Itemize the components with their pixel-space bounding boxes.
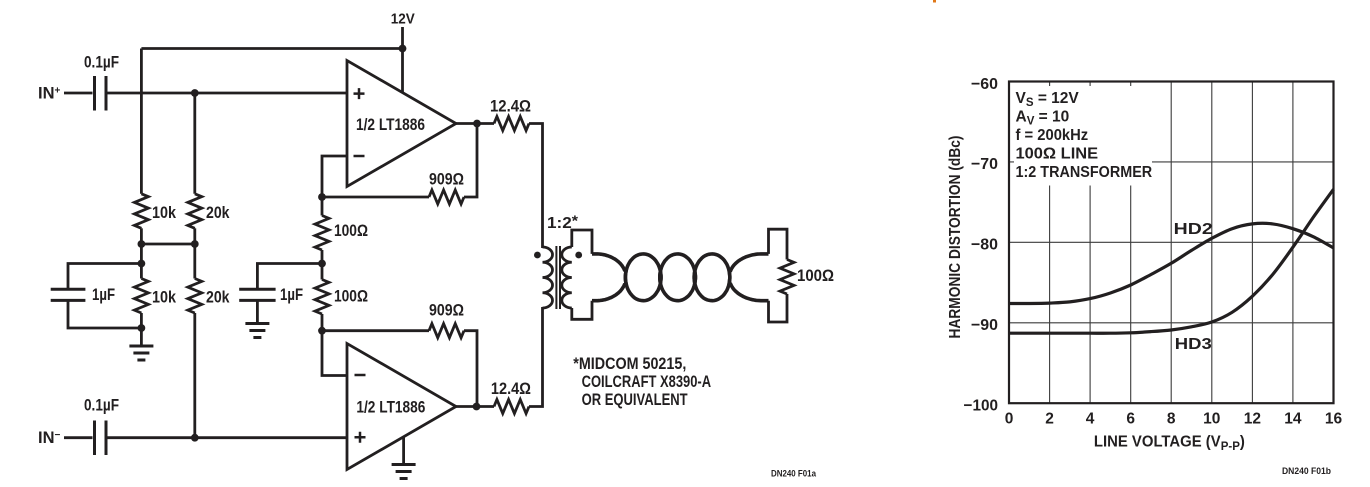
ground C4 (245, 324, 269, 338)
svg-text:12.4Ω: 12.4Ω (490, 98, 531, 116)
junction mid node at 20k column (191, 240, 199, 248)
transformer T1 primary winding (543, 247, 553, 308)
wire node A to R7 (321, 197, 324, 216)
wire R5 to U1a output (464, 124, 477, 198)
op-amp U1b minus input symbol (355, 374, 366, 377)
junction mid node at 10k column (138, 240, 146, 248)
wire R7 bottom to node B (321, 250, 324, 280)
svg-text:1µF: 1µF (92, 286, 115, 304)
svg-text:14: 14 (1284, 411, 1302, 428)
svg-text:OR EQUIVALENT: OR EQUIVALENT (582, 391, 688, 409)
wire mid-node row connecting 10k and 20k columns (141, 243, 194, 246)
svg-text:100Ω: 100Ω (797, 267, 834, 285)
svg-text:VS = 12V: VS = 12V (1016, 90, 1080, 109)
resistor R6 12.4 ohm (upper series) (494, 117, 529, 131)
artifact orange mark (933, 0, 936, 3)
svg-text:0: 0 (1005, 411, 1014, 428)
svg-text:12.4Ω: 12.4Ω (491, 380, 531, 398)
wire bypass cap tap (68, 264, 141, 289)
wire U1b power pin to ground (402, 438, 405, 465)
transformer T1 secondary phase dot (575, 252, 582, 259)
svg-text:−60: −60 (971, 76, 998, 93)
junction 12V rail (399, 45, 407, 53)
transformer T1 core (556, 246, 560, 309)
svg-text:*MIDCOM 50215,: *MIDCOM 50215, (573, 355, 686, 373)
wire R4 bottom down to IN- line (193, 313, 196, 438)
svg-text:f = 200kHz: f = 200kHz (1016, 127, 1089, 144)
op-amp U1a triangle 1/2 LT1886 (347, 61, 456, 187)
wire C1 to op-amp U1a noninverting input (108, 92, 348, 95)
svg-text:100Ω: 100Ω (334, 288, 368, 306)
svg-text:12: 12 (1244, 411, 1261, 428)
svg-text:−80: −80 (971, 237, 998, 254)
svg-text:1/2 LT1886: 1/2 LT1886 (356, 116, 425, 134)
svg-text:−70: −70 (971, 156, 998, 173)
chart grid vertical lines (1050, 82, 1293, 404)
svg-text:10k: 10k (152, 204, 177, 222)
svg-text:12V: 12V (391, 11, 415, 28)
resistor R3 10k (lower bias) (134, 279, 148, 314)
resistor R9 909 ohm feedback (lower) (429, 324, 464, 338)
wire node C to U1b inverting input (322, 331, 347, 376)
svg-text:0.1µF: 0.1µF (84, 397, 119, 415)
svg-text:10k: 10k (152, 289, 177, 307)
op-amp U1a minus input symbol (354, 155, 365, 158)
svg-text:4: 4 (1086, 411, 1095, 428)
wire R1 bottom to mid node (140, 228, 143, 278)
junction U1a output node (473, 120, 481, 128)
wire R6 to transformer primary top (529, 124, 543, 249)
wire U1a inverting input (322, 156, 347, 197)
chart curve HD2 (1009, 223, 1334, 303)
capacitor C3 0.1uF plates (95, 421, 107, 456)
svg-text:HD3: HD3 (1175, 336, 1212, 353)
wire load top bracket (769, 229, 788, 259)
ground bias divider (129, 346, 153, 360)
resistor R4 20k (lower) (188, 279, 202, 314)
svg-text:909Ω: 909Ω (429, 302, 464, 320)
wire secondary top bracket (572, 230, 592, 254)
wire 12V stem down to op-amp U1a power pin (401, 27, 404, 93)
svg-text:909Ω: 909Ω (429, 171, 464, 189)
svg-text:20k: 20k (206, 289, 230, 307)
junction on IN- line at 20k column (191, 434, 199, 442)
svg-text:−90: −90 (971, 317, 998, 334)
svg-text:100Ω: 100Ω (334, 222, 368, 240)
transformer T1 primary phase dot (534, 252, 541, 259)
svg-text:2: 2 (1045, 411, 1054, 428)
wire rail riser down to R1 (140, 49, 143, 194)
svg-text:100Ω LINE: 100Ω LINE (1016, 146, 1099, 163)
twisted pair lower strand (592, 254, 769, 301)
wire R9 to U1b output (464, 331, 477, 407)
svg-text:AV = 10: AV = 10 (1016, 108, 1070, 127)
chart annotation white backing (1014, 86, 1152, 186)
wire C2 bottom to ground node (68, 302, 141, 329)
capacitor C2 1uF plates (51, 289, 86, 300)
wire IN+ lead to C1 (64, 92, 93, 95)
junction on IN+ line at 20k column (191, 89, 199, 97)
wire node A to R5 (322, 196, 429, 199)
svg-text:DN240 F01b: DN240 F01b (1282, 466, 1331, 476)
transformer T1 secondary winding (562, 247, 572, 308)
chart curve HD3 (1009, 189, 1334, 333)
capacitor C1 0.1uF plates (95, 76, 107, 111)
wire U1b output (456, 405, 494, 408)
wire load bottom bracket (769, 294, 788, 322)
wire node B to C4 (257, 264, 322, 289)
resistor R11 100 ohm line load (780, 260, 794, 295)
svg-text:DN240 F01a: DN240 F01a (771, 469, 817, 479)
resistor R7 100 ohm (upper) (315, 216, 329, 251)
wire node C to R9 (322, 329, 429, 332)
svg-text:1µF: 1µF (280, 286, 303, 304)
twisted pair upper strand (592, 254, 769, 301)
op-amp U1b triangle 1/2 LT1886 (347, 344, 456, 470)
svg-text:HARMONIC DISTORTION (dBc): HARMONIC DISTORTION (dBc) (947, 136, 964, 339)
resistor R2 20k (upper) (188, 194, 202, 229)
svg-text:1/2 LT1886: 1/2 LT1886 (356, 399, 425, 417)
resistor R1 10k (upper bias) (134, 194, 148, 229)
wire C4 bottom to ground (256, 302, 259, 324)
junction U1b output node (473, 403, 481, 411)
chart frame (1009, 82, 1334, 404)
power rail 12V horizontal wire (141, 47, 402, 50)
wire secondary bottom bracket (572, 301, 592, 320)
chart grid horizontal lines (1009, 162, 1334, 323)
wire C3 to op-amp U1b noninverting input (108, 436, 348, 439)
wire R2 bottom lead (193, 228, 196, 278)
svg-text:16: 16 (1325, 411, 1343, 428)
wire 20k column from IN+ line down to R2 (193, 93, 196, 194)
svg-text:8: 8 (1167, 411, 1176, 428)
wire R8 bottom to node C (321, 314, 324, 331)
svg-text:20k: 20k (206, 204, 230, 222)
resistor R8 100 ohm (lower) (315, 280, 329, 315)
resistor R10 12.4 ohm (lower series) (494, 400, 529, 414)
svg-text:HD2: HD2 (1174, 221, 1213, 238)
wire R10 to transformer primary bottom (529, 307, 543, 407)
junction node A (U1a feedback node) (318, 193, 326, 201)
junction node C (U1b feedback node) (318, 327, 326, 335)
svg-text:1:2 TRANSFORMER: 1:2 TRANSFORMER (1016, 164, 1153, 181)
op-amp U1a plus input symbol (354, 88, 365, 99)
svg-text:6: 6 (1126, 411, 1135, 428)
junction cap tap (138, 260, 146, 268)
ground U1b (392, 465, 416, 479)
wire IN- lead to C3 (64, 436, 93, 439)
op-amp U1b plus input symbol (355, 432, 366, 443)
wire U1a output (456, 122, 494, 125)
junction node B (center tap) (318, 260, 326, 268)
svg-text:10: 10 (1203, 411, 1220, 428)
capacitor C4 1uF plates (239, 289, 275, 300)
resistor R5 909 ohm feedback (upper) (429, 190, 464, 204)
svg-text:COILCRAFT X8390-A: COILCRAFT X8390-A (582, 373, 712, 391)
wire R3 bottom to ground (140, 313, 143, 346)
svg-text:−100: −100 (964, 398, 999, 415)
svg-text:0.1µF: 0.1µF (84, 54, 119, 72)
junction ground node (138, 324, 146, 332)
